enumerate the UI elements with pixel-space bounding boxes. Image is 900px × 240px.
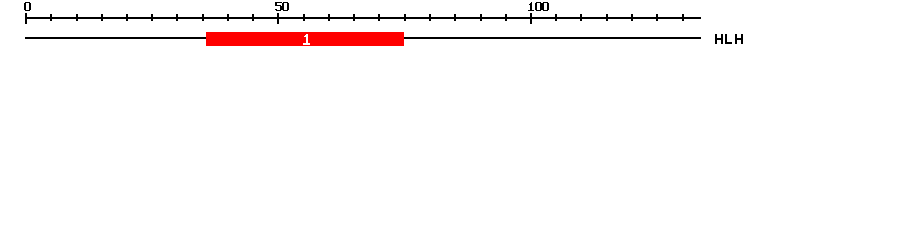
ruler minor tick 35 aa [202,14,204,21]
ruler minor tick 110 aa [580,14,582,21]
ruler major tick 50 [277,13,279,24]
ruler axis line [25,17,701,19]
ruler major tick 100 [530,13,532,24]
ruler minor tick 120 aa [631,14,633,21]
ruler minor tick 10 aa [76,14,78,21]
ruler minor tick 80 aa [429,14,431,21]
ruler minor tick 125 aa [656,14,658,21]
ruler minor tick 25 aa [151,14,153,21]
ruler minor tick 30 aa [176,14,178,21]
ruler minor tick 15 aa [101,14,103,21]
ruler minor tick 85 aa [454,14,456,21]
ruler minor tick 95 aa [505,14,507,21]
ruler label 100 [528,2,535,11]
sequence line [25,37,701,39]
ruler minor tick 5 aa [50,14,52,21]
ruler minor tick 70 aa [378,14,380,21]
motif name HLH [715,34,723,44]
ruler label 0 [24,2,31,11]
ruler minor tick 40 aa [227,14,229,21]
ruler label 50 [275,2,282,11]
ruler minor tick 115 aa [606,14,608,21]
ruler minor tick 65 aa [353,14,355,21]
ruler minor tick 55 aa [303,14,305,21]
motif hit number 1 label [303,34,310,45]
motif hit box 1 (red) [206,32,404,46]
ruler major tick 0 [25,13,27,24]
ruler minor tick 45 aa [252,14,254,21]
ruler minor tick 20 aa [126,14,128,21]
ruler minor tick 90 aa [480,14,482,21]
ruler minor tick 60 aa [328,14,330,21]
ruler minor tick 75 aa [404,14,406,21]
ruler minor tick 130 aa [682,14,684,21]
ruler minor tick 105 aa [555,14,557,21]
